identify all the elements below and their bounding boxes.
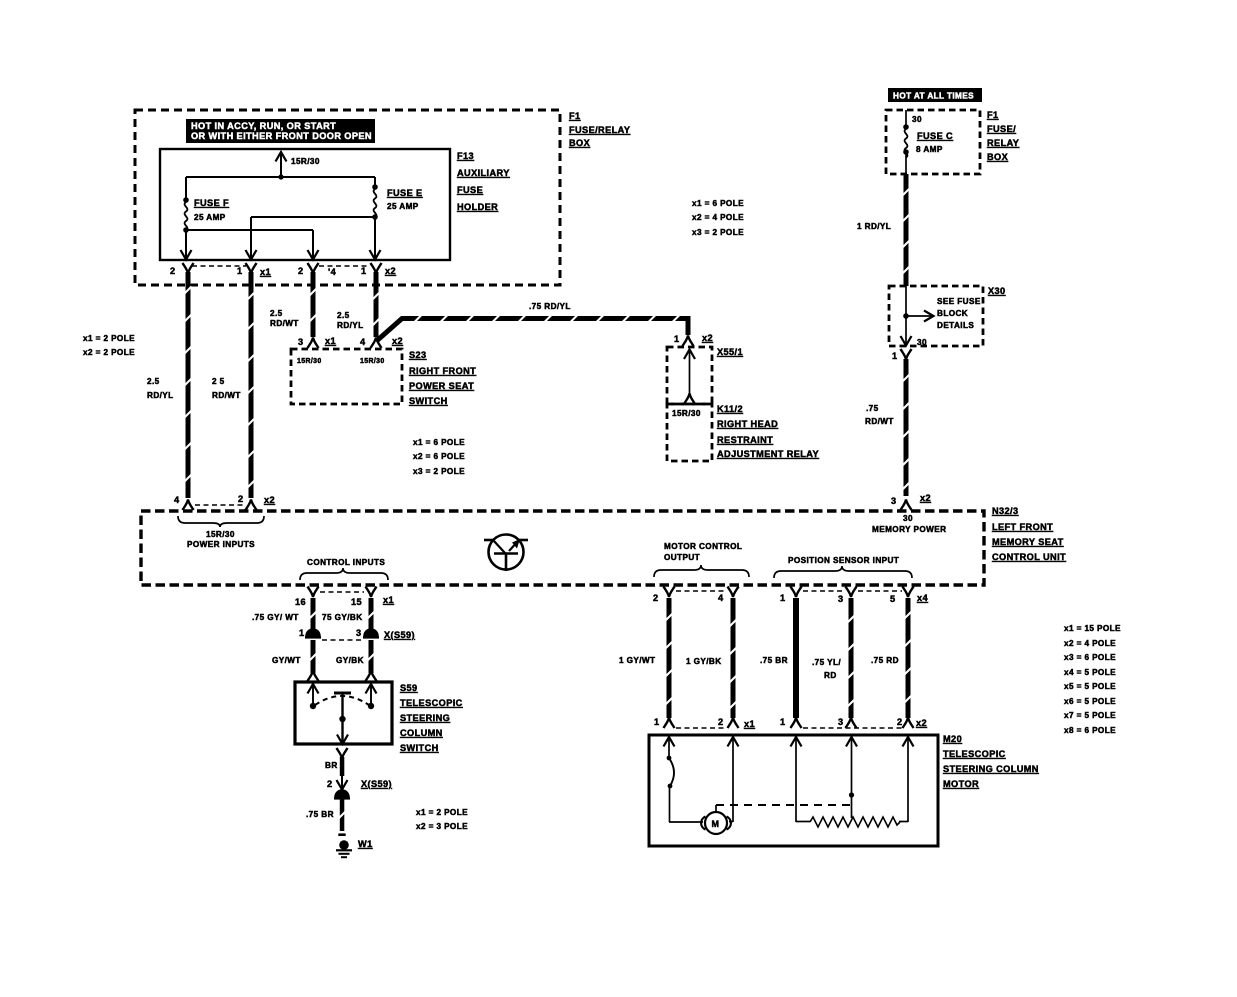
svg-text:1: 1 — [654, 717, 660, 727]
svg-text:x2: x2 — [702, 333, 713, 343]
svg-text:x2 = 2 POLE: x2 = 2 POLE — [83, 348, 135, 357]
wire .75 RD/YL branch to K11/2 — [377, 319, 689, 342]
svg-text:RD/YL: RD/YL — [147, 391, 174, 400]
wire 1 GY/BK — [731, 598, 736, 718]
svg-text:x3 = 6 POLE: x3 = 6 POLE — [1064, 653, 1116, 662]
pin arrows inside S59 — [308, 684, 319, 694]
pins 2 / 4 motor control output — [664, 587, 675, 598]
svg-text:x2 = 4 POLE: x2 = 4 POLE — [1064, 639, 1116, 648]
pin arrow inside X55/1 — [689, 350, 691, 396]
svg-text:4: 4 — [718, 593, 724, 603]
svg-text:FUSE F: FUSE F — [194, 198, 229, 208]
steering column switch S59 — [295, 682, 392, 744]
connector strip x1 — [192, 265, 246, 267]
svg-text:RD: RD — [824, 671, 837, 680]
svg-text:x6 = 5 POLE: x6 = 5 POLE — [1064, 697, 1116, 706]
svg-text:3: 3 — [356, 628, 362, 638]
svg-text:CONTROL UNIT: CONTROL UNIT — [992, 552, 1066, 562]
svg-text:2: 2 — [298, 266, 304, 276]
see fuse block details pointer — [906, 315, 933, 317]
wire BR — [340, 757, 345, 776]
svg-text:F1: F1 — [569, 111, 581, 121]
SECTION: left wires and S23 — [83, 263, 694, 510]
svg-text:SWITCH: SWITCH — [409, 396, 448, 406]
svg-text:.75 BR: .75 BR — [760, 656, 788, 665]
svg-text:RD/YL: RD/YL — [337, 321, 364, 330]
svg-text:MEMORY SEAT: MEMORY SEAT — [992, 537, 1064, 547]
junction — [278, 174, 283, 179]
wire .75 RD/WT — [904, 359, 909, 496]
svg-text:x1: x1 — [260, 267, 271, 277]
svg-text:x5 = 5 POLE: x5 = 5 POLE — [1064, 682, 1116, 691]
svg-text:GY/WT: GY/WT — [272, 656, 301, 665]
svg-text:5: 5 — [890, 594, 896, 604]
pin arrows inside M20 — [664, 737, 675, 747]
svg-text:.75 BR: .75 BR — [306, 810, 334, 819]
svg-text:OR WITH EITHER FRONT DOOR OPEN: OR WITH EITHER FRONT DOOR OPEN — [191, 131, 372, 141]
svg-text:ADJUSTMENT RELAY: ADJUSTMENT RELAY — [717, 449, 819, 459]
svg-text:2: 2 — [238, 494, 244, 504]
svg-text:X(S59): X(S59) — [361, 779, 392, 789]
svg-text:1: 1 — [780, 717, 786, 727]
svg-text:x1 = 2 POLE: x1 = 2 POLE — [83, 334, 135, 343]
svg-text:STEERING COLUMN: STEERING COLUMN — [943, 764, 1039, 774]
svg-text:1: 1 — [780, 593, 786, 603]
svg-text:x4 = 5 POLE: x4 = 5 POLE — [1064, 668, 1116, 677]
power seat switch S23 — [291, 349, 402, 404]
svg-text:3: 3 — [891, 496, 897, 506]
svg-text:.75 GY/ WT: .75 GY/ WT — [252, 613, 299, 622]
pin 3 / x2 at N32/3 — [901, 500, 912, 511]
svg-text:1 GY/WT: 1 GY/WT — [619, 656, 655, 665]
fuse C 8 amp — [903, 124, 909, 130]
svg-text:x3 = 2 POLE: x3 = 2 POLE — [413, 467, 465, 476]
svg-text:FUSE/RELAY: FUSE/RELAY — [569, 125, 630, 135]
wire .75 BR — [340, 799, 345, 831]
svg-text:K11/2: K11/2 — [717, 404, 743, 414]
connector strip x2 — [319, 265, 370, 267]
connector X(S59) pins 1 / 3 — [305, 629, 321, 637]
svg-text:MEMORY POWER: MEMORY POWER — [872, 525, 946, 534]
svg-text:HOT IN ACCY, RUN, OR START: HOT IN ACCY, RUN, OR START — [191, 121, 336, 131]
wire 2.5 RD/YL pin1 to S23 pin4 — [371, 263, 382, 274]
svg-text:X30: X30 — [988, 286, 1006, 296]
connector X55/1 — [667, 347, 712, 404]
pin 1 fork — [901, 349, 912, 360]
svg-text:SEE FUSE: SEE FUSE — [937, 297, 981, 306]
svg-text:MOTOR CONTROL: MOTOR CONTROL — [664, 542, 742, 551]
svg-text:16: 16 — [295, 597, 306, 607]
brace power inputs — [178, 516, 264, 527]
svg-text:8 AMP: 8 AMP — [916, 145, 943, 154]
potentiometer resistor — [810, 817, 900, 827]
hot at all times label — [888, 88, 982, 102]
svg-text:x1 = 6 POLE: x1 = 6 POLE — [413, 438, 465, 447]
wire 1 RD/YL — [904, 174, 909, 286]
svg-text:x1 = 6 POLE: x1 = 6 POLE — [692, 199, 744, 208]
pins 1 / 3 / 5 / x4 position sensors — [791, 587, 802, 598]
svg-text:S59: S59 — [400, 683, 418, 693]
svg-text:RD/WT: RD/WT — [865, 417, 894, 426]
svg-text:TELESCOPIC: TELESCOPIC — [943, 749, 1006, 759]
svg-text:x2: x2 — [920, 493, 931, 503]
pins 16 / 15 / x1 — [308, 587, 319, 598]
svg-text:2: 2 — [718, 717, 724, 727]
svg-text:.75 RD/YL: .75 RD/YL — [529, 302, 571, 311]
wire .75 GY/WT — [311, 598, 316, 629]
svg-text:x1: x1 — [744, 719, 755, 729]
ground W1 — [338, 833, 345, 836]
svg-text:1: 1 — [892, 351, 898, 361]
svg-text:75 GY/BK: 75 GY/BK — [322, 613, 363, 622]
fuse F — [185, 177, 187, 199]
svg-text:x1 = 2 POLE: x1 = 2 POLE — [416, 808, 468, 817]
svg-text:2: 2 — [170, 266, 176, 276]
wire 2.5 RD/YL pin2 to N32/3 pin4 — [183, 263, 194, 274]
svg-text:X(S59): X(S59) — [384, 630, 415, 640]
svg-text:TELESCOPIC: TELESCOPIC — [400, 698, 463, 708]
wire .75 BR — [793, 598, 799, 718]
dashed coupling motor to wiper — [716, 804, 852, 806]
relay K11/2 — [667, 404, 712, 461]
wire 2.5 RD/WT pin1 to N32/3 pin2 — [246, 263, 257, 274]
SECTION: K11/2 relay — [667, 199, 819, 461]
wiper arm — [334, 692, 351, 695]
svg-text:.75 RD: .75 RD — [871, 656, 899, 665]
svg-text:x8 = 6 POLE: x8 = 6 POLE — [1064, 726, 1116, 735]
svg-text:CONTROL INPUTS: CONTROL INPUTS — [307, 558, 385, 567]
svg-text:HOLDER: HOLDER — [457, 202, 498, 212]
svg-text:4: 4 — [174, 495, 180, 505]
wire line 2 to motor — [732, 737, 734, 822]
transistor symbol — [489, 535, 524, 570]
svg-text:2: 2 — [897, 717, 903, 727]
wire .75 YL/RD — [849, 598, 854, 718]
svg-text:2.5: 2.5 — [147, 377, 160, 386]
svg-text:AUXILIARY: AUXILIARY — [457, 168, 510, 178]
svg-text:RELAY: RELAY — [987, 138, 1019, 148]
SECTION: S59 switch and ground — [252, 587, 468, 858]
svg-text:FUSE E: FUSE E — [387, 188, 423, 198]
svg-text:3: 3 — [838, 594, 844, 604]
connector strip x2 — [195, 504, 244, 506]
svg-text:N32/3: N32/3 — [992, 506, 1019, 516]
svg-text:1: 1 — [237, 266, 243, 276]
SECTION: M20 motor — [619, 587, 1039, 847]
svg-text:POWER INPUTS: POWER INPUTS — [187, 540, 255, 549]
wire .75 GY/BK — [369, 598, 374, 629]
svg-text:15R/30: 15R/30 — [360, 358, 385, 365]
wire GY/BK — [369, 640, 374, 673]
svg-text:RD/WT: RD/WT — [270, 319, 299, 328]
svg-text:FUSE/: FUSE/ — [987, 124, 1016, 134]
wire .75 RD — [906, 598, 911, 718]
svg-text:25 AMP: 25 AMP — [387, 202, 419, 211]
svg-text:x1: x1 — [383, 595, 394, 605]
svg-text:x1 = 15 POLE: x1 = 15 POLE — [1064, 624, 1121, 633]
svg-text:3: 3 — [298, 337, 304, 347]
svg-text:1: 1 — [299, 628, 305, 638]
svg-text:1 RD/YL: 1 RD/YL — [857, 222, 891, 231]
memory seat control unit N32/3 — [141, 511, 984, 585]
pin fork under S59 — [337, 748, 348, 759]
switch contact — [668, 737, 670, 757]
wire bus top — [186, 176, 375, 178]
auxiliary fuse holder F13 — [160, 149, 450, 260]
svg-text:STEERING: STEERING — [400, 713, 450, 723]
svg-text:OUTPUT: OUTPUT — [664, 553, 700, 562]
svg-text:30: 30 — [903, 514, 913, 523]
svg-text:4: 4 — [360, 337, 366, 347]
pin 30 arrow at X30 bottom — [905, 334, 907, 345]
fuse/relay box F1 (right) — [886, 110, 980, 174]
wiper line 4 — [851, 737, 853, 818]
svg-text:15R/30: 15R/30 — [297, 358, 322, 365]
svg-text:W1: W1 — [358, 839, 373, 849]
svg-text:30: 30 — [917, 338, 927, 347]
svg-text:x3 = 2 POLE: x3 = 2 POLE — [692, 228, 744, 237]
wire 1 GY/WT — [667, 598, 672, 718]
fuse/relay box F1 (left) — [135, 110, 560, 285]
svg-text:x1: x1 — [325, 336, 336, 346]
node 15R/30 feed arrow — [280, 152, 282, 177]
svg-text:FUSE: FUSE — [457, 185, 483, 195]
output pin arrows at F13 bottom — [185, 230, 187, 259]
svg-text:M20: M20 — [943, 734, 962, 744]
svg-text:X55/1: X55/1 — [717, 347, 743, 357]
svg-text:RIGHT FRONT: RIGHT FRONT — [409, 366, 476, 376]
svg-text:GY/BK: GY/BK — [336, 656, 364, 665]
svg-text:15R/30: 15R/30 — [291, 157, 320, 166]
SECTION: N32/3 control unit — [141, 506, 1066, 585]
line 3 to potentiometer — [795, 737, 797, 822]
SECTION: top-left fuse/relay box — [135, 110, 630, 285]
svg-text:15R/30: 15R/30 — [206, 530, 235, 539]
svg-text:2.5: 2.5 — [270, 309, 283, 318]
svg-text:x2: x2 — [392, 336, 403, 346]
svg-text:'4: '4 — [328, 267, 337, 277]
svg-text:x2: x2 — [264, 495, 275, 505]
svg-text:F13: F13 — [457, 151, 474, 161]
wire GY/WT — [311, 640, 316, 673]
svg-text:BOX: BOX — [987, 152, 1009, 162]
svg-text:HOT AT ALL TIMES: HOT AT ALL TIMES — [893, 92, 974, 101]
pin 30 — [905, 110, 907, 126]
pin 2 arrow at X(S59) — [341, 776, 343, 789]
motor M — [705, 812, 727, 834]
svg-text:BOX: BOX — [569, 138, 591, 148]
svg-text:S23: S23 — [409, 350, 427, 360]
svg-text:3: 3 — [838, 717, 844, 727]
svg-text:RD/WT: RD/WT — [212, 391, 241, 400]
wire 2.5 RD/WT pin2 to S23 pin3 — [308, 263, 319, 274]
svg-text:COLUMN: COLUMN — [400, 728, 443, 738]
svg-text:.75: .75 — [866, 404, 879, 413]
svg-text:2 5: 2 5 — [212, 377, 225, 386]
svg-text:M: M — [712, 819, 720, 829]
svg-text:2: 2 — [327, 779, 333, 789]
fuse block connector X30 — [889, 286, 983, 346]
line 5 — [907, 737, 909, 822]
SECTION: pole lists — [1064, 624, 1121, 735]
svg-text:SWITCH: SWITCH — [400, 743, 439, 753]
svg-text:15: 15 — [351, 597, 362, 607]
svg-text:x2 = 3 POLE: x2 = 3 POLE — [416, 822, 468, 831]
svg-text:RESTRAINT: RESTRAINT — [717, 435, 773, 445]
svg-text:x2: x2 — [385, 266, 396, 276]
svg-text:FUSE C: FUSE C — [917, 131, 953, 141]
svg-text:LEFT FRONT: LEFT FRONT — [992, 522, 1053, 532]
svg-text:.75 YL/: .75 YL/ — [812, 658, 841, 667]
wire fuse F to pin 2b — [186, 229, 313, 231]
wire fuse E to pin 1 — [251, 216, 375, 218]
svg-text:POWER SEAT: POWER SEAT — [409, 381, 474, 391]
svg-text:x2 = 4 POLE: x2 = 4 POLE — [692, 213, 744, 222]
svg-text:MOTOR: MOTOR — [943, 779, 979, 789]
svg-text:RIGHT HEAD: RIGHT HEAD — [717, 419, 778, 429]
svg-text:x2 = 6 POLE: x2 = 6 POLE — [413, 452, 465, 461]
svg-text:x7 = 5 POLE: x7 = 5 POLE — [1064, 711, 1116, 720]
switch wiper arc — [315, 696, 369, 705]
svg-text:30: 30 — [912, 115, 922, 124]
svg-text:15R/30: 15R/30 — [672, 409, 701, 418]
svg-text:POSITION SENSOR INPUT: POSITION SENSOR INPUT — [788, 556, 899, 565]
svg-text:25 AMP: 25 AMP — [194, 213, 226, 222]
svg-text:1: 1 — [674, 334, 680, 344]
junction node — [903, 313, 909, 319]
hot-in-accy header label — [186, 119, 375, 143]
svg-text:DETAILS: DETAILS — [937, 321, 974, 330]
svg-text:2.5: 2.5 — [337, 311, 350, 320]
svg-text:x4: x4 — [917, 593, 929, 603]
svg-text:BLOCK: BLOCK — [937, 309, 968, 318]
SECTION: top-right power feed — [857, 88, 1019, 510]
svg-text:F1: F1 — [987, 110, 999, 120]
svg-text:1 GY/BK: 1 GY/BK — [686, 657, 722, 666]
svg-text:BR: BR — [325, 761, 338, 770]
svg-text:1: 1 — [361, 266, 367, 276]
fuse E — [374, 177, 376, 186]
steering column motor M20 — [649, 735, 938, 846]
svg-text:x2: x2 — [916, 718, 927, 728]
svg-text:2: 2 — [653, 593, 659, 603]
